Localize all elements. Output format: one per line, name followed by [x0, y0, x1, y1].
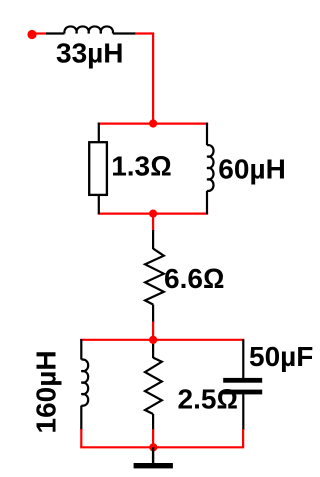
svg-text:6.6Ω: 6.6Ω [164, 263, 224, 294]
svg-text:50µF: 50µF [249, 341, 313, 372]
svg-text:1.3Ω: 1.3Ω [111, 151, 171, 182]
svg-text:60µH: 60µH [218, 154, 285, 185]
svg-text:2.5Ω: 2.5Ω [178, 383, 238, 414]
svg-text:160µH: 160µH [30, 350, 61, 433]
svg-text:33µH: 33µH [56, 37, 124, 68]
